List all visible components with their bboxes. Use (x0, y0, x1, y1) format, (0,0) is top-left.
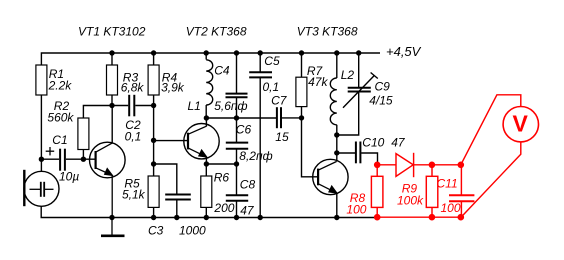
svg-text:100: 100 (346, 203, 366, 217)
svg-text:200: 200 (213, 201, 234, 215)
svg-text:10µ: 10µ (59, 170, 79, 184)
svg-text:V: V (513, 111, 529, 137)
svg-text:R6: R6 (214, 170, 230, 184)
svg-text:47: 47 (240, 203, 255, 217)
svg-text:47: 47 (391, 136, 406, 150)
svg-text:2.2k: 2.2k (48, 79, 73, 93)
svg-text:560k: 560k (47, 111, 74, 125)
svg-text:47k: 47k (308, 75, 328, 89)
svg-text:C1: C1 (52, 133, 67, 147)
svg-text:100k: 100k (397, 194, 424, 208)
svg-text:C6: C6 (236, 123, 252, 137)
svg-text:0,1: 0,1 (125, 130, 142, 144)
svg-text:5,1k: 5,1k (122, 188, 146, 202)
svg-text:8,2пф: 8,2пф (239, 149, 272, 163)
svg-text:100: 100 (441, 201, 461, 215)
svg-text:C3: C3 (148, 224, 164, 238)
svg-text:C7: C7 (271, 93, 288, 107)
svg-text:0,1: 0,1 (263, 80, 280, 94)
svg-text:VT1 KT3102: VT1 KT3102 (78, 25, 146, 39)
svg-text:5,6пф: 5,6пф (214, 99, 247, 113)
svg-text:3,9k: 3,9k (161, 81, 185, 95)
svg-text:VT2 KT368: VT2 KT368 (186, 25, 247, 39)
svg-text:VT3 KT368: VT3 KT368 (297, 25, 358, 39)
svg-text:6,8k: 6,8k (121, 81, 145, 95)
svg-text:15: 15 (275, 130, 289, 144)
svg-text:4/15: 4/15 (369, 94, 393, 108)
svg-text:C11: C11 (437, 177, 458, 191)
svg-text:C5: C5 (264, 54, 280, 68)
svg-text:L1: L1 (188, 99, 201, 113)
svg-text:1000: 1000 (179, 224, 206, 238)
svg-text:C9: C9 (375, 80, 391, 94)
svg-text:C8: C8 (240, 177, 256, 191)
svg-text:L2: L2 (341, 68, 355, 82)
svg-text:C4: C4 (214, 64, 230, 78)
svg-text:C10: C10 (362, 136, 384, 150)
svg-text:+4,5V: +4,5V (386, 44, 422, 59)
